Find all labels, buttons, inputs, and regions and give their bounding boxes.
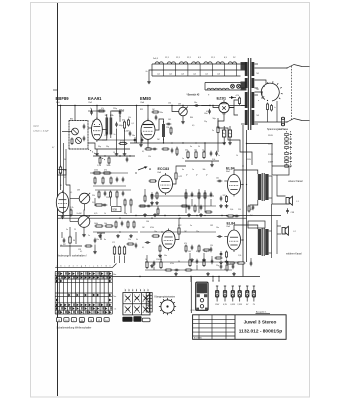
svg-text:2x1M: 2x1M bbox=[77, 213, 82, 215]
cluster caps mid-left2 bbox=[98, 191, 100, 199]
filter coil 1 bbox=[72, 128, 79, 135]
svg-text:0,1: 0,1 bbox=[142, 247, 144, 249]
lower screen feed bbox=[241, 239, 243, 241]
svg-text:10n: 10n bbox=[194, 102, 197, 104]
coil F2 bbox=[167, 62, 175, 64]
svg-text:Juwel 3 Stereo: Juwel 3 Stereo bbox=[244, 319, 277, 324]
svg-text:470k: 470k bbox=[170, 263, 174, 265]
EZ81 cathode drop bbox=[218, 115, 224, 127]
svg-text:30p: 30p bbox=[98, 146, 101, 148]
svg-text:0,1: 0,1 bbox=[206, 111, 208, 113]
svg-text:v.2fach o. 0,5µF: v.2fach o. 0,5µF bbox=[33, 131, 49, 133]
svg-text:2,35V: 2,35V bbox=[237, 304, 242, 306]
svg-text:1M: 1M bbox=[166, 127, 169, 129]
svg-text:EM80: EM80 bbox=[140, 96, 152, 101]
secondary rect bbox=[272, 166, 289, 175]
svg-text:5k: 5k bbox=[198, 146, 200, 148]
svg-text:25: 25 bbox=[74, 229, 76, 231]
wire top bus bbox=[58, 105, 248, 107]
svg-text:N3: N3 bbox=[257, 115, 259, 117]
extra grounds bbox=[143, 213, 147, 217]
svg-text:1,5k: 1,5k bbox=[59, 173, 63, 175]
extra parts between EL84s bbox=[248, 205, 250, 213]
Tr2 wires bbox=[234, 170, 258, 174]
header underline bbox=[55, 267, 112, 269]
svg-text:210: 210 bbox=[238, 209, 241, 211]
pickup arrow A bbox=[138, 167, 146, 170]
extra parts top det bbox=[90, 110, 93, 116]
svg-text:2n: 2n bbox=[88, 235, 90, 237]
EL84 coupling cap bbox=[217, 180, 223, 183]
svg-text:C64: C64 bbox=[146, 221, 149, 223]
node junction row bbox=[93, 155, 135, 157]
box feed wires bbox=[74, 106, 76, 121]
lower-left filler parts bbox=[63, 238, 66, 244]
coil F6 bbox=[216, 62, 224, 64]
fuse Si3 bbox=[231, 286, 234, 302]
detector wires bbox=[96, 106, 98, 120]
svg-text:1k: 1k bbox=[236, 155, 238, 157]
EZ81 anode wires bbox=[229, 100, 238, 108]
fuse Si5 bbox=[246, 286, 249, 302]
anode resistors R9 R10 bbox=[106, 118, 109, 135]
svg-text:6,35V: 6,35V bbox=[230, 304, 235, 306]
svg-text:1,2k: 1,2k bbox=[238, 255, 241, 257]
filter trimmers bbox=[71, 138, 73, 146]
svg-text:h: h bbox=[85, 265, 86, 267]
small table cell crosses bbox=[126, 296, 130, 300]
coil F5 bbox=[204, 62, 212, 64]
svg-text:8n: 8n bbox=[104, 239, 106, 241]
svg-text:1n: 1n bbox=[182, 158, 184, 160]
lower stage grid parts bbox=[152, 235, 161, 237]
svg-text:220V: 220V bbox=[268, 154, 274, 156]
svg-text:c: c bbox=[65, 265, 66, 267]
extra left vertical wire bbox=[63, 143, 65, 216]
pot tone bbox=[78, 215, 90, 227]
svg-text:3,3k: 3,3k bbox=[212, 159, 215, 161]
coil F4 bbox=[192, 62, 200, 64]
svg-text:n: n bbox=[109, 265, 110, 267]
Tr1 taps bbox=[241, 63, 245, 65]
svg-text:La3: La3 bbox=[181, 74, 184, 76]
ECC83 grid stopper bbox=[149, 180, 158, 182]
svg-text:N1: N1 bbox=[257, 73, 259, 75]
fuse Si2 bbox=[223, 286, 226, 302]
selector inner parts bbox=[267, 103, 269, 112]
svg-text:1132.012 - 80001Sp: 1132.012 - 80001Sp bbox=[239, 329, 283, 335]
svg-text:C21: C21 bbox=[92, 121, 95, 123]
lamp coil 1 bbox=[207, 88, 214, 90]
title block frame bbox=[193, 315, 287, 340]
tube ECC83 lower bbox=[162, 229, 175, 251]
chain right end block bbox=[241, 62, 247, 71]
input resistor bbox=[59, 166, 61, 175]
coupling C between speakers bbox=[286, 208, 289, 214]
svg-text:5n: 5n bbox=[66, 229, 68, 231]
tube EL84 upper bbox=[227, 173, 240, 197]
svg-text:50µ: 50µ bbox=[222, 133, 225, 135]
tag strip bbox=[146, 293, 152, 313]
drops from bus bbox=[204, 143, 206, 152]
svg-text:4k7: 4k7 bbox=[63, 244, 66, 246]
wire bottom left drop bbox=[69, 227, 71, 237]
diode D1 bbox=[231, 96, 234, 99]
mains fuse bbox=[282, 117, 285, 120]
svg-text:4,7k: 4,7k bbox=[236, 95, 240, 97]
svg-text:30: 30 bbox=[64, 159, 66, 161]
EL84 cathode RC bbox=[226, 195, 228, 203]
mains dashed link bbox=[291, 66, 293, 120]
svg-text:R31: R31 bbox=[140, 109, 143, 111]
svg-text:Schalterstellung Wellenschalte: Schalterstellung Wellenschalter bbox=[57, 326, 92, 329]
svg-text:0,22: 0,22 bbox=[179, 176, 183, 178]
svg-text:N2: N2 bbox=[257, 89, 259, 91]
svg-text:10n: 10n bbox=[216, 178, 219, 180]
svg-text:ECC83: ECC83 bbox=[158, 167, 170, 171]
long left vertical wire bbox=[65, 149, 67, 185]
B+ rail 2 bbox=[246, 130, 248, 262]
svg-text:13: 13 bbox=[60, 245, 62, 247]
svg-text:0,22: 0,22 bbox=[178, 225, 181, 227]
svg-text:2,2k: 2,2k bbox=[70, 207, 73, 209]
svg-text:Tr2: Tr2 bbox=[250, 214, 253, 217]
bottom row cluster bbox=[146, 261, 148, 270]
right feed wire bbox=[247, 144, 273, 167]
small table header ticks bbox=[124, 289, 126, 291]
svg-text:2x: 2x bbox=[212, 130, 214, 132]
svg-text:R17: R17 bbox=[105, 135, 108, 137]
svg-text:1n: 1n bbox=[192, 169, 194, 171]
misc top-left tick bbox=[53, 89, 58, 91]
coil F1 bbox=[155, 62, 163, 64]
plate load bbox=[175, 172, 177, 181]
svg-text:220: 220 bbox=[106, 197, 109, 199]
svg-text:0,1: 0,1 bbox=[132, 123, 134, 125]
speaker LS2 bbox=[282, 226, 288, 235]
trimmer pair bbox=[134, 137, 137, 143]
svg-text:1n: 1n bbox=[218, 155, 220, 157]
heater stub bbox=[213, 106, 219, 108]
svg-text:220p: 220p bbox=[113, 108, 117, 110]
bottom feed wire bbox=[255, 121, 288, 123]
svg-text:25µ: 25µ bbox=[204, 121, 207, 123]
svg-text:560k: 560k bbox=[107, 165, 111, 167]
svg-text:25n: 25n bbox=[185, 150, 188, 152]
fuse Si6 bbox=[252, 286, 255, 302]
AGC line bbox=[88, 143, 130, 149]
svg-text:2n: 2n bbox=[114, 134, 116, 136]
bottom band extra parts bbox=[165, 269, 173, 271]
coupling cap to EZ81 bbox=[194, 104, 200, 107]
tube EBF89 envelope bbox=[56, 191, 68, 215]
connector pin boxes bbox=[56, 318, 61, 322]
svg-text:k: k bbox=[97, 265, 98, 267]
EAA91 plate pins bbox=[94, 124, 95, 125]
lamp row end block bbox=[241, 82, 247, 91]
svg-text:13: 13 bbox=[113, 152, 115, 154]
svg-text:La2: La2 bbox=[169, 74, 172, 76]
svg-text:50n: 50n bbox=[164, 255, 167, 257]
svg-text:C71: C71 bbox=[112, 242, 115, 244]
filament chain (coil bumps) bbox=[152, 63, 241, 65]
svg-text:1,2M: 1,2M bbox=[97, 165, 101, 167]
svg-text:EZ81: EZ81 bbox=[217, 96, 227, 101]
tone network cluster bbox=[187, 151, 189, 160]
DIN socket box bbox=[196, 282, 208, 310]
svg-text:5n: 5n bbox=[190, 225, 192, 227]
selector top feed wire bbox=[255, 67, 288, 69]
Tr1 primary winding bbox=[245, 62, 248, 76]
power transformer Tr1 core bbox=[247, 58, 249, 130]
svg-text:240V: 240V bbox=[268, 162, 274, 164]
pot volume bbox=[79, 193, 90, 204]
pilot lamp La1 bbox=[231, 84, 235, 88]
junction dots sprinkle bbox=[147, 142, 148, 143]
pot P1 bbox=[179, 107, 188, 116]
svg-text:La4: La4 bbox=[193, 74, 196, 76]
svg-text:EBF89: EBF89 bbox=[56, 96, 70, 101]
svg-text:Bl.1 Bl.Bln: Bl.1 Bl.Bln bbox=[194, 337, 202, 339]
Ausgabe underline bbox=[256, 313, 271, 315]
svg-text:+250V: +250V bbox=[246, 159, 252, 161]
bottom bus bbox=[58, 276, 261, 278]
svg-text:R40: R40 bbox=[190, 117, 193, 119]
tube EL84 lower bbox=[227, 228, 240, 252]
svg-text:EAA91: EAA91 bbox=[88, 96, 102, 101]
vertical triple resistors bbox=[113, 246, 115, 256]
svg-text:Spannungswähler: Spannungswähler bbox=[267, 128, 286, 131]
input wire left bbox=[60, 106, 62, 168]
svg-text:10k: 10k bbox=[104, 223, 107, 225]
selector lower wires bbox=[267, 111, 269, 122]
svg-text:La6: La6 bbox=[217, 74, 220, 76]
svg-text:b: b bbox=[275, 107, 276, 109]
cap C filter bbox=[208, 109, 211, 115]
svg-text:C90: C90 bbox=[156, 259, 159, 261]
filter cap pair bbox=[223, 130, 226, 137]
svg-text:100k: 100k bbox=[94, 223, 98, 225]
filament chain lower bar bbox=[152, 69, 241, 71]
lower EL84 coupling bbox=[217, 235, 223, 238]
svg-text:50p: 50p bbox=[106, 146, 109, 148]
small res row bbox=[99, 157, 101, 165]
svg-text:15n: 15n bbox=[96, 239, 99, 241]
fuse Si1 bbox=[215, 286, 218, 302]
EM80 anode resistor bbox=[162, 124, 165, 137]
selector ticks bbox=[263, 96, 265, 99]
svg-text:47k: 47k bbox=[122, 120, 125, 122]
svg-text:1M: 1M bbox=[105, 115, 108, 117]
svg-text:0,25: 0,25 bbox=[94, 213, 97, 215]
left small box bbox=[58, 170, 67, 176]
ECC83 cathode network bbox=[156, 192, 158, 200]
T junction symbol bbox=[97, 232, 105, 234]
svg-text:120: 120 bbox=[210, 245, 213, 247]
svg-text:50µ: 50µ bbox=[124, 213, 127, 215]
svg-text:0,5: 0,5 bbox=[192, 125, 194, 127]
svg-text:5,6k: 5,6k bbox=[230, 209, 233, 211]
svg-text:25µ: 25µ bbox=[216, 265, 219, 267]
svg-text:47k: 47k bbox=[104, 170, 107, 172]
svg-text:220k: 220k bbox=[94, 170, 98, 172]
svg-text:110V: 110V bbox=[268, 135, 273, 137]
dashed coupling path bbox=[88, 149, 105, 160]
lamp coil 3 bbox=[222, 88, 229, 90]
lamp coil 2 bbox=[215, 88, 222, 90]
svg-text:470k: 470k bbox=[120, 141, 124, 143]
extra parts lower mid bbox=[139, 205, 147, 207]
svg-text:30n: 30n bbox=[160, 112, 163, 114]
det grounds bbox=[95, 152, 99, 156]
IF transformer dashed box bbox=[69, 121, 88, 150]
svg-text:12k: 12k bbox=[148, 156, 151, 158]
svg-text:A 247: A 247 bbox=[124, 130, 130, 133]
tube ECC83 upper bbox=[159, 173, 173, 195]
pilot lamp La2 bbox=[237, 84, 241, 88]
svg-text:3n: 3n bbox=[190, 146, 192, 148]
extra parts EM80 right bbox=[155, 115, 158, 121]
wire to socket bbox=[190, 277, 192, 314]
selector mid feed wires bbox=[255, 80, 267, 84]
left frame line bbox=[57, 3, 59, 396]
svg-text:5,6: 5,6 bbox=[92, 202, 94, 204]
svg-text:EL84: EL84 bbox=[226, 167, 235, 171]
B+ rail 1 bbox=[242, 125, 244, 277]
svg-text:470: 470 bbox=[184, 243, 187, 245]
filter coil 2 bbox=[76, 138, 82, 144]
resistor R smoothing bbox=[238, 97, 240, 106]
lower plate load bbox=[178, 227, 180, 236]
svg-text:1n: 1n bbox=[202, 150, 204, 152]
table cell triangles bbox=[60, 272, 62, 275]
Tr3 secondary top rect bbox=[248, 221, 265, 228]
svg-text:4,7: 4,7 bbox=[52, 147, 54, 149]
svg-text:50µ: 50µ bbox=[159, 259, 162, 261]
svg-text:1k: 1k bbox=[145, 259, 147, 261]
svg-text:0,1: 0,1 bbox=[80, 251, 82, 253]
Tr1 secondary winding bbox=[252, 62, 255, 76]
EBF89 cathode parts bbox=[61, 215, 65, 219]
svg-text:g: g bbox=[81, 265, 82, 267]
small res below EZ81 bbox=[217, 126, 219, 135]
svg-text:1M: 1M bbox=[178, 104, 181, 106]
fuse Si4 bbox=[238, 286, 241, 302]
svg-text:10n: 10n bbox=[216, 227, 219, 229]
svg-text:C98: C98 bbox=[291, 212, 294, 214]
pilot lamp row box bbox=[205, 82, 241, 84]
screen feed bbox=[241, 184, 243, 186]
svg-text:C82: C82 bbox=[210, 225, 213, 227]
output transformer Tr3 bbox=[261, 228, 263, 256]
table filler ticks bbox=[56, 272, 58, 274]
pot wires bbox=[83, 204, 86, 216]
svg-text:25k: 25k bbox=[92, 195, 95, 197]
EM80 wires bbox=[147, 106, 149, 121]
svg-text:1M: 1M bbox=[77, 190, 80, 192]
bottom band connective bbox=[145, 261, 240, 263]
speaker LS1 bbox=[286, 196, 292, 205]
pot wires bbox=[172, 106, 179, 112]
coupling caps bbox=[115, 122, 118, 128]
left bottom component bbox=[69, 236, 71, 245]
svg-text:C99: C99 bbox=[78, 249, 81, 251]
svg-text:120: 120 bbox=[223, 195, 226, 197]
voltage selector rotary arc bbox=[261, 83, 279, 101]
svg-text:938: 938 bbox=[113, 208, 118, 212]
AF bus double line bbox=[58, 215, 282, 217]
svg-text:Klangregistertasten: Klangregistertasten bbox=[155, 296, 176, 299]
title sub-table bbox=[193, 318, 235, 320]
svg-text:4n: 4n bbox=[182, 169, 184, 171]
rectifier tube EZ81 bbox=[219, 102, 229, 112]
svg-text:0,1: 0,1 bbox=[142, 151, 144, 153]
svg-text:100p: 100p bbox=[119, 125, 123, 127]
svg-text:30k: 30k bbox=[203, 169, 206, 171]
svg-text:C30: C30 bbox=[168, 103, 171, 105]
tube EM80 bbox=[141, 119, 155, 142]
extra parts right of lower ECC83 bbox=[185, 245, 187, 253]
det res cluster bbox=[123, 121, 125, 130]
extra parts mid band bbox=[145, 148, 153, 150]
svg-text:10n: 10n bbox=[132, 135, 135, 137]
svg-text:470k: 470k bbox=[150, 227, 154, 229]
svg-text:0,1: 0,1 bbox=[70, 192, 72, 194]
svg-text:d: d bbox=[69, 265, 70, 267]
small table bottom boxes bbox=[122, 317, 132, 322]
mid vertical from detector bbox=[136, 106, 138, 144]
svg-text:Ausgabe 1: Ausgabe 1 bbox=[256, 311, 267, 314]
svg-text:800: 800 bbox=[250, 209, 253, 211]
cluster connective wires bbox=[150, 195, 214, 197]
tube EAA91 bbox=[92, 117, 103, 142]
mid bus y143 bbox=[130, 142, 225, 144]
svg-text:La1: La1 bbox=[157, 74, 160, 76]
wafer switch bbox=[161, 300, 174, 313]
step wire to upper EL84 bbox=[218, 118, 252, 165]
legend fuse chain bbox=[286, 131, 288, 168]
coil F7 bbox=[228, 62, 236, 64]
wire to pots bbox=[66, 185, 70, 199]
switch matrix table bbox=[55, 271, 112, 273]
speaker wires upper bbox=[271, 176, 273, 198]
svg-text:Tas.: Tas. bbox=[113, 296, 117, 298]
det area wires bbox=[102, 139, 135, 141]
svg-text:1n: 1n bbox=[119, 116, 121, 118]
svg-text:unterer Kanal: unterer Kanal bbox=[288, 180, 303, 183]
svg-text:315: 315 bbox=[230, 263, 233, 265]
svg-text:50µ: 50µ bbox=[228, 133, 231, 135]
svg-text:3k: 3k bbox=[136, 239, 138, 241]
drops to bottom bus bbox=[190, 277, 192, 283]
svg-text:1k: 1k bbox=[104, 213, 106, 215]
mains switch bottom bbox=[287, 119, 302, 123]
output transformer Tr2 bbox=[261, 173, 263, 201]
svg-text:Änderungen vorbehalten !: Änderungen vorbehalten ! bbox=[57, 254, 87, 258]
EM80 target bar bbox=[143, 124, 153, 126]
svg-text:C41: C41 bbox=[168, 119, 171, 121]
small table grid bbox=[123, 293, 150, 315]
lower EL84 cathode bbox=[226, 251, 228, 259]
svg-text:Sta.: Sta. bbox=[113, 273, 117, 276]
svg-text:30: 30 bbox=[73, 240, 75, 242]
svg-text:25n: 25n bbox=[128, 239, 131, 241]
Tr3 wires bbox=[234, 225, 258, 229]
svg-text:signal: signal bbox=[33, 126, 39, 128]
coil F3 bbox=[179, 62, 187, 64]
svg-text:10n: 10n bbox=[194, 150, 197, 152]
input lower wire bbox=[60, 175, 62, 191]
